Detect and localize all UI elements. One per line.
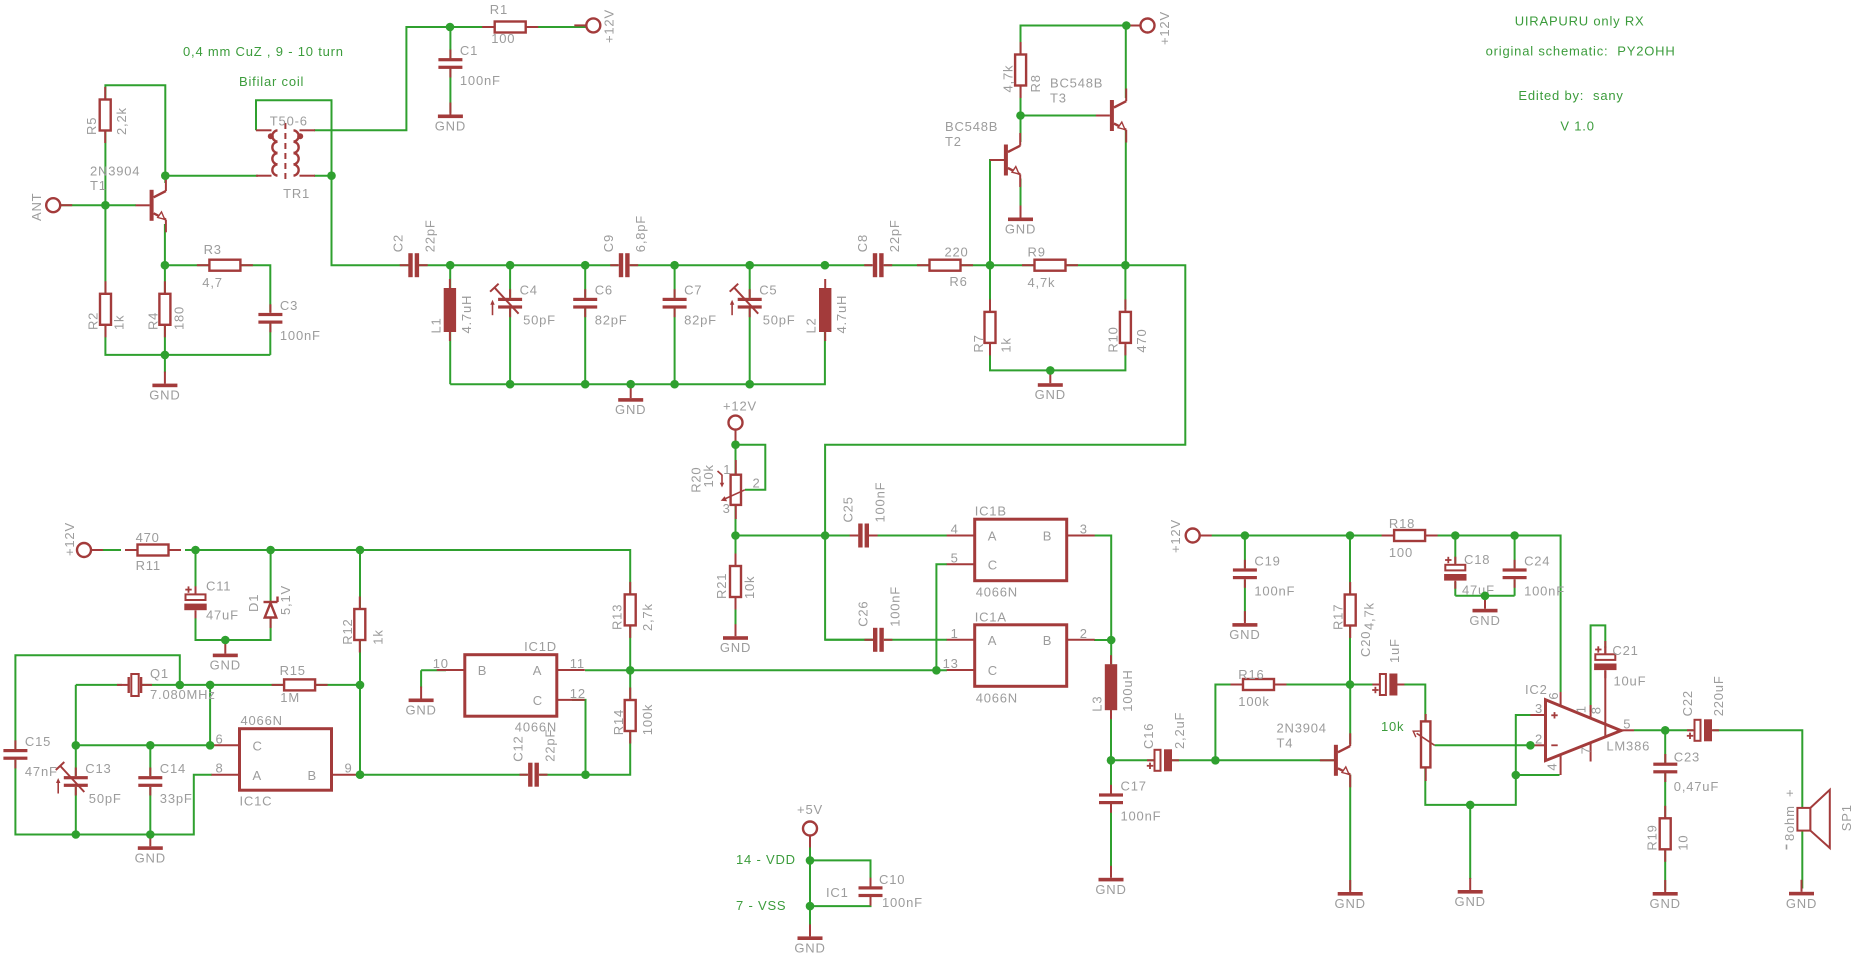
svg-text:C18: C18 — [1464, 552, 1490, 567]
wire node to T3 base — [1021, 115, 1097, 117]
svg-text:A: A — [988, 529, 997, 544]
svg-text:C17: C17 — [1121, 778, 1147, 793]
capacitor C9 — [601, 215, 648, 277]
wire filter ground rail — [450, 331, 825, 384]
resistor R16 — [1231, 667, 1287, 709]
svg-text:C26: C26 — [855, 601, 870, 627]
svg-text:100: 100 — [491, 31, 515, 46]
wire R15 to R12 node — [315, 684, 361, 686]
capacitor C24 — [1503, 553, 1565, 598]
wire ANT to T1 base — [61, 204, 136, 206]
svg-text:IC1B: IC1B — [975, 504, 1007, 519]
junction J18 — [670, 380, 679, 389]
svg-text:50pF: 50pF — [89, 791, 122, 806]
svg-text:IC1D: IC1D — [524, 639, 557, 654]
wire C15 bottom to IC1C pin 8 — [15, 760, 212, 835]
wire oscillator output line — [585, 669, 947, 671]
resistor R10 — [1106, 299, 1150, 355]
svg-text:GND: GND — [720, 640, 751, 655]
svg-text:SP1: SP1 — [1839, 804, 1854, 831]
svg-text:GND: GND — [1035, 387, 1066, 402]
capacitor C8 — [855, 219, 902, 277]
svg-text:14 - VDD: 14 - VDD — [736, 852, 796, 867]
wire C3 bottom — [269, 322, 271, 355]
wire C11 top — [195, 550, 197, 594]
svg-text:C: C — [253, 739, 263, 754]
svg-text:1: 1 — [723, 462, 731, 477]
svg-text:220uF: 220uF — [1711, 675, 1726, 716]
svg-text:100k: 100k — [640, 704, 655, 735]
wire C7 top — [674, 265, 676, 298]
wire R14 top — [629, 670, 631, 700]
svg-text:8ohm: 8ohm — [1782, 805, 1797, 841]
svg-text:C20: C20 — [1358, 631, 1373, 657]
svg-text:B: B — [308, 768, 317, 783]
svg-text:C16: C16 — [1141, 723, 1156, 749]
wire to R10 top — [1124, 265, 1126, 309]
svg-text:C19: C19 — [1254, 553, 1280, 568]
wire R12 top — [359, 550, 361, 609]
wire to C17 — [1110, 760, 1112, 795]
resistor R3 — [197, 242, 253, 290]
capacitor C1 — [438, 43, 500, 88]
svg-text:4.7uH: 4.7uH — [834, 295, 849, 334]
svg-text:1k: 1k — [112, 315, 127, 330]
junction J13 — [986, 261, 995, 270]
resistor R18 — [1382, 516, 1438, 560]
inductor L2 — [804, 279, 850, 341]
wire C10 to VSS — [810, 895, 871, 906]
junction J2 — [161, 171, 170, 180]
wire R7 R10 ground rail — [990, 346, 1125, 371]
polarized capacitor C11 — [184, 579, 239, 623]
resistor R12 — [340, 597, 386, 653]
ground C17 — [1095, 866, 1126, 897]
svg-text:T3: T3 — [1050, 91, 1067, 106]
wire output node to C23 — [1664, 730, 1666, 764]
svg-text:82pF: 82pF — [595, 313, 628, 328]
capacitor C19 — [1233, 553, 1295, 598]
svg-text:22pF: 22pF — [423, 219, 438, 252]
capacitor C10 — [859, 878, 883, 906]
inductor L3 — [1090, 655, 1136, 719]
wire C26 to IC1A pin 1 — [884, 639, 947, 641]
capacitor C2 — [391, 219, 438, 277]
junction J41 — [821, 531, 830, 540]
wire C14 bottom — [149, 787, 151, 835]
svg-text:2: 2 — [1535, 732, 1543, 747]
svg-text:GND: GND — [210, 658, 241, 673]
analog switch IC1D 4066N — [433, 639, 586, 735]
svg-text:L3: L3 — [1090, 696, 1105, 712]
ground T2 emitter — [1005, 206, 1036, 237]
svg-text:R7: R7 — [971, 334, 986, 352]
wire base node to R5 — [104, 130, 106, 205]
svg-text:A: A — [533, 663, 542, 678]
svg-text:C6: C6 — [595, 283, 613, 298]
junction J39 — [731, 440, 740, 449]
svg-text:B: B — [1043, 529, 1052, 544]
svg-text:T1: T1 — [90, 178, 107, 193]
junction J24 — [266, 546, 275, 555]
junction J16 — [581, 380, 590, 389]
polarized capacitor C20 — [1358, 631, 1404, 696]
wire R19 to ground — [1664, 849, 1666, 890]
junction J17 — [626, 380, 635, 389]
junction J38 — [932, 666, 941, 675]
wire crystal node to node A — [209, 685, 211, 745]
wire R8 top to +12V rail — [1021, 26, 1141, 56]
wire IC2 output to C22 — [1634, 729, 1693, 731]
transistor T4 — [1277, 721, 1351, 788]
svg-text:Bifilar coil: Bifilar coil — [239, 74, 304, 89]
wire emitter node to R3 — [165, 264, 210, 266]
speaker SP1 8ohm — [1782, 789, 1854, 850]
wire T3 emitter to R10 node — [1125, 131, 1127, 266]
wire C25 to IC1B pin 4 — [869, 535, 947, 537]
wire base node to R16 — [1215, 685, 1240, 761]
svg-text:C: C — [988, 558, 998, 573]
ground C11 D1 — [210, 642, 241, 673]
svg-text:R17: R17 — [1331, 604, 1346, 630]
svg-text:T50-6: T50-6 — [270, 113, 308, 128]
resistor R4 — [145, 281, 186, 337]
wire C6 top — [584, 265, 586, 298]
svg-text:4066N: 4066N — [976, 585, 1018, 600]
wire T4 emitter to ground — [1349, 775, 1351, 891]
wire filter rail C9 to C8 — [630, 264, 872, 266]
svg-text:LM386: LM386 — [1606, 739, 1650, 754]
pin +12V detector — [729, 416, 743, 442]
ground R7 R10 — [1035, 371, 1066, 402]
ground T4 — [1335, 880, 1366, 911]
junction J32 — [206, 741, 215, 750]
svg-text:C10: C10 — [879, 872, 905, 887]
svg-text:GND: GND — [135, 850, 166, 865]
junction J48 — [1346, 680, 1355, 689]
wire C16 to T4 base — [1172, 759, 1215, 761]
ground C19 — [1229, 611, 1260, 642]
svg-text:R19: R19 — [1645, 824, 1660, 850]
wire oscillator loop to C15 — [15, 655, 179, 749]
ground T1 stage — [149, 372, 180, 403]
analog switch IC1A 4066N — [943, 609, 1095, 705]
junction J31 — [146, 741, 155, 750]
svg-text:3: 3 — [1535, 701, 1543, 716]
svg-text:+12V: +12V — [602, 9, 617, 43]
wire to C1 top — [449, 27, 451, 59]
trimmer capacitor C13 — [56, 761, 122, 806]
svg-text:4066N: 4066N — [976, 690, 1018, 705]
svg-text:100nF: 100nF — [460, 73, 501, 88]
capacitor C12 — [511, 729, 558, 787]
wire C18 top — [1454, 536, 1456, 564]
ground C1 — [435, 103, 466, 134]
wire R13 bottom — [629, 625, 631, 670]
junction J51 — [1526, 741, 1535, 750]
wire R1 to +12V — [526, 26, 587, 28]
svg-text:22pF: 22pF — [543, 729, 558, 762]
junction J9 — [581, 261, 590, 270]
svg-text:B: B — [478, 663, 487, 678]
wire C17 to ground — [1110, 802, 1112, 876]
svg-text:8: 8 — [215, 761, 223, 776]
wire bottom rail T1 stage — [105, 325, 270, 355]
trimmer capacitor C4 — [490, 283, 556, 328]
svg-text:3: 3 — [1080, 522, 1088, 537]
svg-text:R11: R11 — [136, 558, 161, 573]
ground oscillator — [135, 834, 166, 865]
wire R21 to ground — [735, 597, 737, 635]
svg-text:BC548B: BC548B — [945, 119, 998, 134]
pin +5V supply — [803, 822, 817, 848]
svg-text:C15: C15 — [25, 734, 51, 749]
junction J29 — [356, 681, 365, 690]
resistor R21 — [714, 554, 757, 610]
ground volume pot — [1455, 878, 1486, 909]
svg-text:A: A — [988, 633, 997, 648]
svg-text:R15: R15 — [280, 663, 306, 678]
op-amp IC2 LM386 — [1525, 641, 1650, 775]
wire IC2 pin 4 row — [1516, 774, 1560, 776]
svg-text:4,7k: 4,7k — [1362, 602, 1377, 630]
svg-text:10uF: 10uF — [1614, 673, 1647, 688]
svg-text:C14: C14 — [160, 761, 186, 776]
wire C12 right — [540, 774, 586, 776]
junction J28 — [206, 681, 215, 690]
junction J11 — [745, 261, 754, 270]
junction J8 — [506, 261, 515, 270]
wire C7 bottom — [674, 308, 676, 384]
junction J20 — [1046, 366, 1055, 375]
junction J27 — [176, 681, 185, 690]
svg-text:R5: R5 — [84, 117, 99, 135]
wire TR1 to C2 — [332, 176, 409, 266]
svg-text:33pF: 33pF — [160, 791, 193, 806]
ground IC1 — [794, 924, 825, 955]
svg-text:4: 4 — [1544, 763, 1559, 771]
svg-text:+: + — [1782, 789, 1797, 797]
svg-text:100nF: 100nF — [882, 895, 923, 910]
svg-text:C25: C25 — [841, 496, 856, 522]
junction J30 — [72, 741, 81, 750]
svg-text:2: 2 — [753, 476, 761, 491]
svg-text:2,2uF: 2,2uF — [1172, 712, 1187, 749]
svg-text:C3: C3 — [280, 298, 298, 313]
junction J3 — [327, 171, 336, 180]
svg-text:+12V: +12V — [1157, 11, 1172, 45]
potentiometer 10k volume — [1413, 714, 1434, 781]
pin +12V audio — [1186, 529, 1212, 543]
svg-text:4,7k: 4,7k — [1028, 275, 1056, 290]
svg-text:C1: C1 — [460, 43, 478, 58]
resistor R19 — [1645, 806, 1691, 862]
svg-text:+12V: +12V — [723, 399, 757, 414]
svg-text:13: 13 — [943, 656, 959, 671]
wire to ground volume pot — [1469, 805, 1471, 879]
resistor R11 — [125, 530, 181, 573]
svg-text:1k: 1k — [371, 629, 386, 644]
svg-text:10: 10 — [433, 656, 449, 671]
svg-text:C8: C8 — [855, 234, 870, 252]
junction J25 — [356, 546, 365, 555]
resistor R1 — [482, 2, 538, 46]
wire R20 wiper loop — [736, 445, 766, 490]
capacitor C17 — [1099, 778, 1161, 823]
svg-text:C: C — [533, 693, 543, 708]
wire C1 to ground — [449, 68, 451, 113]
junction J4 — [101, 201, 110, 210]
svg-text:100nF: 100nF — [1121, 808, 1162, 823]
wire to R14 bottom — [586, 731, 631, 775]
wire node A to IC1C pin 6 — [76, 744, 212, 746]
wire C18 bottom — [1454, 582, 1456, 596]
svg-text:47uF: 47uF — [206, 608, 239, 623]
polarized capacitor C21 — [1594, 643, 1646, 689]
svg-text:2: 2 — [1080, 626, 1088, 641]
svg-text:R18: R18 — [1389, 516, 1415, 531]
resistor R6 — [917, 245, 973, 290]
svg-text:5,1V: 5,1V — [278, 585, 293, 615]
junction J52 — [1512, 771, 1521, 780]
wire C5 bottom — [749, 308, 751, 384]
svg-text:R6: R6 — [949, 274, 967, 289]
svg-text:100k: 100k — [1238, 694, 1269, 709]
junction J42 — [1107, 636, 1116, 645]
wire C24 bottom — [1514, 580, 1516, 596]
svg-text:10k: 10k — [1381, 719, 1404, 734]
svg-text:R10: R10 — [1106, 326, 1121, 352]
svg-text:47nF: 47nF — [25, 764, 58, 779]
svg-text:5: 5 — [1623, 717, 1631, 732]
svg-text:original schematic: PY2OHH: original schematic: PY2OHH — [1486, 44, 1676, 59]
svg-text:UIRAPURU only RX: UIRAPURU only RX — [1515, 14, 1645, 29]
svg-text:C5: C5 — [759, 283, 777, 298]
wire C4 bottom — [509, 308, 511, 384]
wire T1 emitter to R4 — [164, 224, 166, 294]
svg-text:50pF: 50pF — [763, 313, 796, 328]
junction J53 — [1466, 801, 1475, 810]
svg-text:IC1: IC1 — [826, 885, 849, 900]
svg-text:T2: T2 — [945, 134, 962, 149]
junction J12 — [821, 261, 830, 270]
wire C14 top — [149, 745, 151, 776]
svg-text:R2: R2 — [85, 312, 100, 330]
wire R12 bottom — [359, 640, 361, 685]
svg-text:ANT: ANT — [29, 193, 44, 221]
svg-text:220: 220 — [945, 245, 969, 260]
junction J21 — [1016, 111, 1025, 120]
svg-text:R12: R12 — [340, 618, 355, 644]
capacitor C7 — [663, 283, 717, 328]
svg-text:2N3904: 2N3904 — [90, 164, 140, 179]
junction J6 — [161, 351, 170, 360]
wire down to ground IC1D — [420, 670, 422, 687]
svg-text:3: 3 — [723, 501, 731, 516]
svg-text:8: 8 — [1588, 706, 1603, 714]
wire crystal left — [76, 684, 122, 686]
wire C11 D1 ground link — [196, 611, 271, 641]
resistor R2 — [85, 281, 126, 337]
svg-text:Edited by: sany: Edited by: sany — [1518, 88, 1623, 103]
wire R17 bottom — [1349, 625, 1351, 684]
svg-text:+5V: +5V — [797, 802, 823, 817]
svg-text:R1: R1 — [490, 2, 508, 17]
wire IC1D pin 10 to ground — [421, 669, 446, 671]
junction J56 — [806, 902, 815, 911]
svg-text:4: 4 — [951, 522, 959, 537]
svg-text:82pF: 82pF — [684, 313, 717, 328]
transistor T3 — [1050, 76, 1126, 143]
polarized capacitor C16 — [1141, 712, 1187, 772]
svg-text:C7: C7 — [684, 283, 702, 298]
wire C23 to R19 — [1664, 772, 1666, 819]
svg-text:A: A — [253, 768, 262, 783]
wire C8 to R6 — [884, 264, 930, 266]
junction J19 — [745, 380, 754, 389]
resistor R5 — [84, 87, 129, 143]
transistor T1 — [90, 164, 166, 233]
wire left branch to C13 — [75, 685, 77, 776]
polarized capacitor C18 — [1444, 552, 1495, 598]
svg-text:11: 11 — [570, 656, 585, 671]
svg-text:C12: C12 — [511, 735, 526, 761]
wire to T4 base — [1215, 759, 1334, 761]
inductor L1 — [428, 279, 474, 341]
svg-text:GND: GND — [615, 402, 646, 417]
svg-text:6: 6 — [1546, 692, 1561, 700]
svg-text:9: 9 — [345, 761, 353, 776]
wire T4 collector — [1349, 685, 1351, 745]
wire IC1C pin 9 to C12 — [360, 774, 528, 776]
wire R18 to IC2 pin 6 — [1426, 536, 1561, 693]
wire TR1 bifilar loop — [256, 100, 332, 176]
junction J44 — [1346, 531, 1355, 540]
svg-text:IC2: IC2 — [1525, 682, 1548, 697]
wire IC2 pin 1 to C21 — [1591, 625, 1606, 712]
svg-text:L1: L1 — [428, 317, 443, 333]
resistor R8 — [1001, 42, 1044, 98]
svg-text:R21: R21 — [714, 573, 729, 599]
capacitor C15 — [3, 734, 57, 779]
resistor R13 — [610, 582, 655, 638]
pin ANT input — [46, 198, 72, 212]
svg-text:50pF: 50pF — [523, 313, 556, 328]
wire bias node to C25 — [736, 535, 859, 537]
capacitor C23 — [1653, 754, 1677, 782]
svg-text:C4: C4 — [520, 283, 538, 298]
svg-text:GND: GND — [149, 388, 180, 403]
capacitor C6 — [573, 283, 627, 328]
wire R12 node to IC1C output — [359, 685, 361, 775]
svg-text:R16: R16 — [1238, 667, 1264, 682]
wire speaker to ground — [1801, 831, 1803, 889]
analog switch IC1C 4066N — [212, 713, 360, 809]
junction J37 — [626, 666, 635, 675]
wire IC1B IC1A outputs — [1094, 536, 1111, 641]
junction J43 — [1241, 531, 1250, 540]
capacitor C26 — [855, 586, 902, 652]
junction J26 — [221, 636, 230, 645]
junction J36 — [581, 770, 590, 779]
wire to ground T1 stage — [164, 355, 166, 373]
zener diode D1 — [246, 585, 293, 628]
wire C22 to speaker — [1713, 730, 1803, 808]
svg-text:R4: R4 — [145, 312, 160, 330]
junction J23 — [191, 546, 200, 555]
junction J1 — [446, 23, 455, 32]
svg-text:GND: GND — [1095, 882, 1126, 897]
